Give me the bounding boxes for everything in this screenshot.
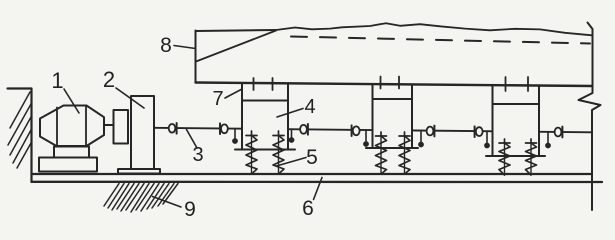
spring S4 (unit2 right) bbox=[399, 132, 410, 174]
trough 8 top edge bbox=[196, 30, 277, 31]
spring S5 (unit3 left) bbox=[499, 139, 510, 175]
coupling C3 (after unit1) bbox=[300, 124, 308, 135]
mount ticks unit2 bbox=[380, 77, 382, 89]
svg-text:1: 1 bbox=[51, 68, 63, 93]
svg-text:7: 7 bbox=[212, 88, 223, 110]
bearing dot unit2 right bbox=[418, 131, 424, 147]
coupling C5 (after unit2) bbox=[427, 126, 435, 137]
motor 1 body (octagon) bbox=[40, 106, 104, 147]
material level dashed line bbox=[291, 37, 590, 44]
leader label 7 bbox=[225, 89, 242, 98]
leader label 9 bbox=[153, 197, 182, 208]
svg-text:5: 5 bbox=[306, 146, 318, 169]
exciter box unit U3 bbox=[486, 85, 545, 156]
material surface wavy line bbox=[276, 23, 592, 35]
svg-text:3: 3 bbox=[192, 144, 203, 166]
coupling C4 (before unit2) bbox=[352, 125, 360, 136]
wall hatching bbox=[8, 92, 31, 168]
coupling C7 (after unit3) bbox=[555, 127, 563, 138]
base frame 6 top line bbox=[32, 173, 593, 175]
bearing dot unit3 right bbox=[545, 132, 551, 148]
leader label 2 bbox=[116, 88, 144, 108]
leader label 5 bbox=[277, 158, 307, 167]
mount ticks unit1 bbox=[253, 78, 255, 90]
exciter box unit U1 bbox=[235, 85, 295, 150]
motor M1 shaft stub bbox=[104, 124, 114, 126]
svg-text:2: 2 bbox=[103, 67, 115, 92]
coupling C2 (before unit1) bbox=[220, 123, 228, 134]
ground hatching 9 bbox=[104, 184, 178, 213]
coupling C1 (after stand) bbox=[169, 123, 177, 134]
bearing stand 2 foot plate bbox=[118, 169, 160, 174]
base frame 6 bottom line bbox=[32, 181, 603, 183]
spring S6 (unit3 right) bbox=[526, 139, 537, 175]
svg-text:6: 6 bbox=[302, 197, 314, 220]
coupling block between motor and stand bbox=[114, 110, 129, 144]
leader label 8 bbox=[174, 46, 196, 49]
svg-text:8: 8 bbox=[160, 34, 172, 57]
motor 1 pedestal bbox=[54, 147, 89, 158]
leader label 6 bbox=[314, 178, 323, 200]
bearing dot unit2 left bbox=[363, 131, 369, 147]
trough right end with break symbol bbox=[579, 23, 601, 211]
bearing stand 2 column bbox=[131, 96, 154, 169]
bearing dot unit1 left bbox=[232, 129, 238, 144]
svg-text:9: 9 bbox=[184, 198, 196, 221]
svg-text:4: 4 bbox=[304, 96, 315, 118]
coupling C6 (before unit3) bbox=[475, 126, 483, 137]
leader label 4 bbox=[277, 109, 303, 118]
motor 1 base plate bbox=[39, 158, 97, 172]
motor 1 facet lines bbox=[56, 108, 58, 146]
trough 8 material slope diagonal bbox=[196, 31, 276, 62]
spring S1 (unit1 left) bbox=[246, 131, 257, 174]
mount ticks unit3 bbox=[505, 77, 507, 91]
bearing dot unit3 left bbox=[484, 132, 490, 149]
bearing dot unit1 right bbox=[289, 130, 295, 143]
leader label 1 bbox=[64, 89, 79, 113]
wall (left abutment) outline bbox=[8, 89, 32, 183]
spring S3 (unit2 left) bbox=[376, 132, 387, 174]
trough bottom plate bbox=[196, 83, 593, 87]
spring S2 (unit1 right) bbox=[273, 131, 284, 174]
leader label 3 bbox=[187, 130, 198, 149]
trough 8 left end edge bbox=[195, 31, 197, 83]
main drive shaft 3 bbox=[154, 128, 592, 133]
exciter box unit U2 bbox=[366, 85, 418, 148]
